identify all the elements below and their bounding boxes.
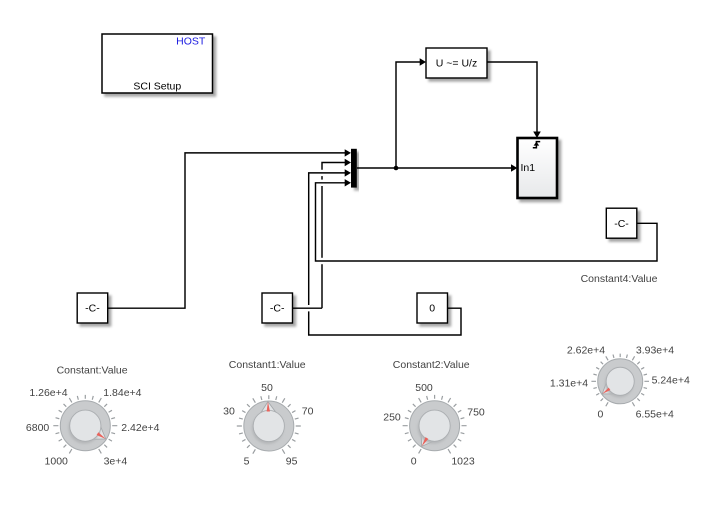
constant Constant (-C-) xyxy=(77,293,108,323)
wire U~=U/z output to subsystem trigger xyxy=(487,62,541,138)
svg-text:3.93e+4: 3.93e+4 xyxy=(636,345,674,357)
svg-text:30: 30 xyxy=(223,406,235,418)
svg-text:-C-: -C- xyxy=(85,303,100,315)
svg-text:-C-: -C- xyxy=(614,218,629,230)
svg-text:1.84e+4: 1.84e+4 xyxy=(103,387,141,399)
svg-text:U ~= U/z: U ~= U/z xyxy=(436,57,477,69)
svg-text:2.42e+4: 2.42e+4 xyxy=(121,422,159,434)
svg-text:HOST: HOST xyxy=(176,35,206,47)
block SCI Setup xyxy=(102,34,213,93)
svg-text:0: 0 xyxy=(597,408,603,420)
node junction xyxy=(394,166,399,171)
svg-text:-C-: -C- xyxy=(270,303,285,315)
svg-text:6.55e+4: 6.55e+4 xyxy=(636,408,674,420)
svg-text:3e+4: 3e+4 xyxy=(104,456,128,468)
wire Constant4 to Mux input 4 xyxy=(316,179,658,261)
svg-text:In1: In1 xyxy=(521,162,536,174)
svg-text:2.62e+4: 2.62e+4 xyxy=(567,345,605,357)
svg-text:5.24e+4: 5.24e+4 xyxy=(652,375,690,387)
svg-text:250: 250 xyxy=(383,412,401,424)
subsystem U1 (triggered) xyxy=(518,138,558,198)
block U ~= U/z xyxy=(426,48,487,78)
svg-text:70: 70 xyxy=(302,406,314,418)
constant Constant2 (0) xyxy=(417,293,448,323)
svg-text:Constant4:Value: Constant4:Value xyxy=(581,273,658,285)
svg-text:Constant1:Value: Constant1:Value xyxy=(229,359,306,371)
svg-text:95: 95 xyxy=(286,456,298,468)
svg-text:1.31e+4: 1.31e+4 xyxy=(550,378,588,390)
constant Constant1 (-C-) xyxy=(262,293,293,323)
knob Constant2:Value xyxy=(383,359,485,468)
svg-text:5: 5 xyxy=(244,456,250,468)
wire junction to U~=U/z input xyxy=(396,58,426,168)
svg-text:500: 500 xyxy=(415,382,433,394)
wire Constant1 to Mux input 2 xyxy=(293,159,352,308)
knob Constant4:Value xyxy=(550,345,690,421)
knob Constant1:Value xyxy=(223,359,313,468)
svg-text:SCI Setup: SCI Setup xyxy=(133,81,181,93)
svg-text:50: 50 xyxy=(261,382,273,394)
trigger port symbol xyxy=(533,142,540,148)
wire Mux output to subsystem In1 xyxy=(357,164,517,171)
svg-text:0: 0 xyxy=(411,456,417,468)
mux xyxy=(351,149,357,188)
svg-text:1000: 1000 xyxy=(45,456,69,468)
svg-text:1023: 1023 xyxy=(451,456,475,468)
svg-text:750: 750 xyxy=(467,406,485,418)
svg-text:0: 0 xyxy=(429,303,435,315)
svg-text:Constant2:Value: Constant2:Value xyxy=(393,359,470,371)
constant Constant4 (-C-) xyxy=(606,208,637,238)
svg-text:6800: 6800 xyxy=(26,422,50,434)
wire Constant2 to Mux input 3 xyxy=(309,169,461,335)
wire Constant to Mux input 1 xyxy=(108,149,351,308)
svg-text:1.26e+4: 1.26e+4 xyxy=(29,387,67,399)
svg-text:Constant:Value: Constant:Value xyxy=(57,365,128,377)
knob Constant:Value xyxy=(26,365,160,468)
